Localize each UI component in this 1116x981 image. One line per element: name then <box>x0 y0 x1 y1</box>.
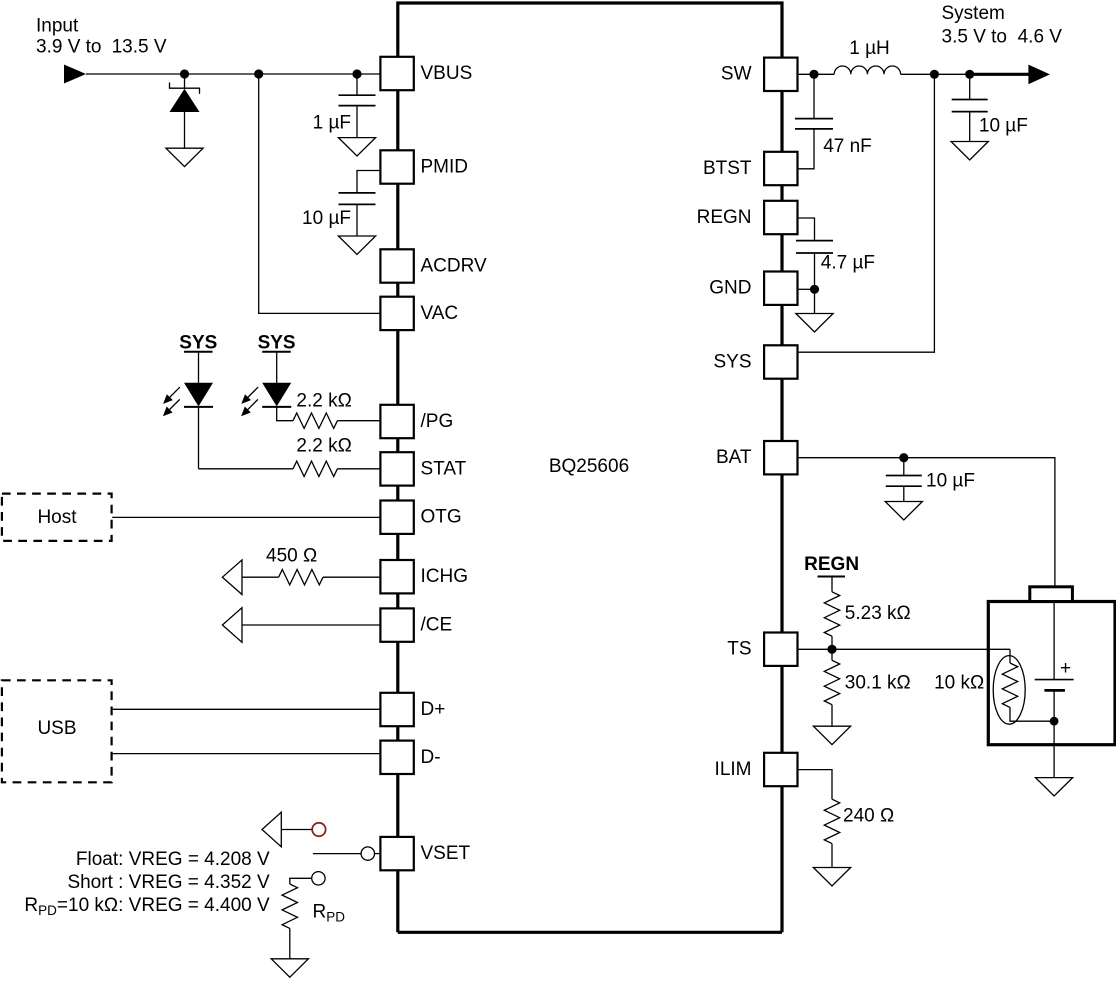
pin SW <box>721 58 798 91</box>
pin /PG <box>380 405 453 438</box>
svg-text:3.5 V to: 3.5 V to <box>942 26 1008 47</box>
pin SYS <box>713 345 797 378</box>
pin BAT <box>716 441 798 474</box>
svg-text:VSET: VSET <box>421 843 471 864</box>
svg-text:REGN: REGN <box>697 207 752 228</box>
LED D2 light arrows <box>160 384 183 407</box>
net label SYS (LED1) <box>179 332 217 353</box>
wire circle to VSET pin <box>375 853 381 855</box>
ground (R6) <box>813 868 850 886</box>
inductor L1 1uH <box>834 66 900 74</box>
ground (C2) <box>338 236 375 254</box>
ground (GND pin) <box>796 314 833 332</box>
pin PMID <box>380 150 468 183</box>
svg-text:3.9 V to: 3.9 V to <box>36 36 102 57</box>
svg-text:240 Ω: 240 Ω <box>843 805 894 826</box>
resistor R5 30.1k <box>824 649 839 726</box>
selector circle (VSET pin) <box>361 847 374 860</box>
Host block <box>2 494 112 541</box>
junction dot output cap <box>965 70 974 79</box>
capacitor C5 4.7uF (REGN) <box>796 218 833 314</box>
svg-text:10 kΩ: 10 kΩ <box>934 672 984 693</box>
pin GND <box>709 272 797 305</box>
junction dot BAT-C6 <box>899 453 908 462</box>
wire VSET float option <box>281 829 312 831</box>
pin ILIM <box>715 753 798 786</box>
wire R3 to ICHG pin <box>323 576 380 578</box>
resistor R3 450ohm (ICHG) <box>279 570 323 585</box>
resistor R4 5.23k <box>824 577 839 650</box>
pin VAC <box>380 297 458 330</box>
svg-text:/PG: /PG <box>421 411 454 432</box>
svg-text:+: + <box>1060 658 1071 679</box>
junction dot TS <box>827 645 836 654</box>
capacitor C4 10uF (system) <box>952 74 988 141</box>
wire battery to ground <box>1053 745 1055 778</box>
TVS diode D1 (input clamp) <box>170 74 200 148</box>
svg-text:OTG: OTG <box>421 507 462 528</box>
junction dot input-VAC <box>254 69 263 78</box>
svg-text:4.7 µF: 4.7 µF <box>821 252 875 273</box>
wire R2 to STAT pin <box>337 468 380 470</box>
svg-text:Short : VREG = 4.352 V: Short : VREG = 4.352 V <box>67 872 270 893</box>
pin VBUS <box>380 57 472 90</box>
pin REGN <box>697 201 798 234</box>
svg-text:TS: TS <box>727 639 751 660</box>
wire BAT to battery pack <box>799 458 1055 587</box>
resistor RPD <box>282 884 297 928</box>
pin /CE <box>380 608 452 641</box>
svg-text:SYS: SYS <box>258 332 296 353</box>
svg-text:5.23 kΩ: 5.23 kΩ <box>845 603 911 624</box>
battery terminal tab <box>1030 587 1073 602</box>
svg-text:BAT: BAT <box>716 447 752 468</box>
pin VSET <box>380 837 470 870</box>
battery pack box <box>988 602 1115 745</box>
LED D3 light arrows <box>238 384 261 407</box>
svg-text:SW: SW <box>721 64 752 85</box>
wire USB to D- <box>112 753 380 755</box>
svg-text:SYS: SYS <box>179 332 217 353</box>
junction dot SYS loop <box>930 70 939 79</box>
svg-text:1 µH: 1 µH <box>849 38 890 59</box>
capacitor C1 1uF (VBUS) <box>339 74 376 138</box>
svg-text:Input: Input <box>36 16 79 37</box>
ground (C1) <box>338 138 375 156</box>
resistor R2 2.2k (STAT) <box>293 461 337 476</box>
pin D- <box>380 741 440 774</box>
terminal arrow (ICHG) <box>222 560 242 595</box>
junction dot input-C1 <box>352 69 361 78</box>
net label SYS (LED2) <box>258 332 296 353</box>
junction dot battery negative <box>1050 717 1059 726</box>
ground (RPD) <box>271 959 308 977</box>
svg-text:SYS: SYS <box>713 351 751 372</box>
svg-text:PMID: PMID <box>421 157 469 178</box>
ground (C6) <box>885 502 922 520</box>
wire VAC branch <box>259 74 381 313</box>
terminal arrow (VSET float option) <box>262 812 281 847</box>
svg-text:30.1 kΩ: 30.1 kΩ <box>845 672 911 693</box>
svg-text:VAC: VAC <box>421 303 459 324</box>
wire /CE terminal to pin <box>242 624 380 626</box>
pin STAT <box>380 452 466 485</box>
selector circle (RPD option) <box>312 872 325 885</box>
pin D+ <box>380 693 445 726</box>
junction dot GND-C5 <box>810 285 819 294</box>
wire RPD to ground <box>289 928 291 958</box>
ground (battery) <box>1036 778 1073 796</box>
ground (C4) <box>951 142 988 160</box>
wire input rail to VBUS <box>86 73 380 75</box>
system output arrow <box>970 73 1029 76</box>
svg-text:D+: D+ <box>421 699 446 720</box>
battery cell BT1 <box>1035 602 1074 745</box>
LED D3 (/PG indicator) <box>262 352 293 421</box>
svg-text:ACDRV: ACDRV <box>421 256 487 277</box>
note text VSET options <box>24 849 270 918</box>
wire SW to inductor <box>799 73 835 75</box>
svg-text:RPD=10 kΩ: VREG = 4.400 V: RPD=10 kΩ: VREG = 4.400 V <box>24 895 270 918</box>
resistor R1 2.2k (/PG) <box>293 413 337 428</box>
svg-text:13.5 V: 13.5 V <box>112 36 167 57</box>
capacitor C6 10uF (BAT) <box>886 458 922 502</box>
pin ACDRV <box>380 249 487 282</box>
svg-text:47 nF: 47 nF <box>823 136 872 157</box>
wire SYS pin loop <box>799 74 935 352</box>
svg-text:10 µF: 10 µF <box>302 208 351 229</box>
pin OTG <box>380 501 461 534</box>
LED D2 (STAT indicator) <box>184 352 213 469</box>
svg-text:/CE: /CE <box>421 615 453 636</box>
ground (R5) <box>813 726 850 744</box>
svg-text:ILIM: ILIM <box>715 759 752 780</box>
wire LED1 to R2 <box>199 468 294 470</box>
thermistor RT 10k <box>993 649 1054 724</box>
svg-text:STAT: STAT <box>421 458 467 479</box>
svg-text:10 µF: 10 µF <box>926 470 975 491</box>
svg-text:BTST: BTST <box>703 158 752 179</box>
input terminal arrow <box>64 65 86 84</box>
svg-text:VBUS: VBUS <box>421 63 473 84</box>
wire USB to D+ <box>112 708 380 710</box>
svg-text:REGN: REGN <box>804 554 859 575</box>
pin BTST <box>703 152 798 185</box>
wire R1 to /PG pin <box>337 420 380 422</box>
svg-text:D-: D- <box>421 747 441 768</box>
svg-text:BQ25606: BQ25606 <box>549 456 629 477</box>
svg-text:USB: USB <box>37 718 76 739</box>
net label REGN <box>804 554 859 576</box>
terminal arrow (/CE) <box>222 608 242 643</box>
pin TS <box>727 633 797 666</box>
IC U1 BQ25606 body outline <box>398 1 782 932</box>
selector circle (red, float) <box>312 823 325 836</box>
wire ICHG terminal to R3 <box>242 576 279 578</box>
ground (TVS) <box>166 148 203 166</box>
wire GND pin to C5 <box>799 288 815 290</box>
svg-text:Float: VREG = 4.208 V: Float: VREG = 4.208 V <box>76 849 270 870</box>
svg-text:System: System <box>942 3 1005 24</box>
USB block <box>2 680 112 782</box>
svg-text:2.2 kΩ: 2.2 kΩ <box>296 436 351 457</box>
pin ICHG <box>380 560 468 593</box>
svg-text:GND: GND <box>709 278 751 299</box>
wire inductor to output <box>901 73 970 75</box>
capacitor C3 47nF (BTST) <box>795 74 833 169</box>
wire VSET pin stub <box>313 853 361 855</box>
svg-text:ICHG: ICHG <box>421 566 469 587</box>
svg-text:450 Ω: 450 Ω <box>266 546 317 567</box>
svg-text:4.6 V: 4.6 V <box>1018 26 1063 47</box>
wire TS node <box>799 648 1010 650</box>
svg-text:10 µF: 10 µF <box>979 116 1028 137</box>
resistor R6 240ohm <box>824 799 839 867</box>
junction dot input-TVS <box>180 69 189 78</box>
svg-text:1 µF: 1 µF <box>313 113 351 134</box>
wire ILIM to R6 <box>799 770 832 800</box>
junction dot SW node <box>809 70 818 79</box>
wire Host to OTG <box>112 516 380 518</box>
capacitor C2 10uF (PMID) <box>339 171 381 237</box>
svg-text:2.2 kΩ: 2.2 kΩ <box>296 390 351 411</box>
wire RPD option <box>290 878 312 884</box>
svg-text:Host: Host <box>37 507 77 528</box>
